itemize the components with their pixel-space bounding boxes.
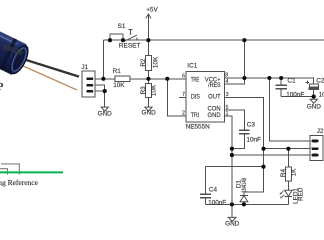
svg-text:R4: R4 bbox=[280, 168, 287, 177]
svg-text:3: 3 bbox=[226, 92, 229, 98]
svg-text:1N4148: 1N4148 bbox=[241, 178, 248, 193]
annotation gray bracket inner bbox=[0, 169, 8, 175]
wire pin 5 CON to C3 bbox=[224, 110, 244, 129]
svg-text:1K: 1K bbox=[291, 168, 298, 177]
svg-text:5: 5 bbox=[226, 105, 229, 111]
svg-text:S1: S1 bbox=[118, 23, 126, 30]
annotation gray bracket outer bbox=[1, 164, 19, 175]
svg-text:/RES: /RES bbox=[208, 82, 221, 89]
wire C4 top link bbox=[206, 166, 264, 168]
wire C1/C2 bottom rail bbox=[281, 96, 314, 98]
wire pin 1 GND down bbox=[224, 116, 232, 204]
switch S1 bracket bbox=[110, 34, 123, 40]
wire VCC row: pin 8 to C2 bbox=[224, 78, 313, 84]
photo: capacitor lead dark bbox=[15, 57, 79, 77]
photo: electrolytic capacitor body bbox=[0, 18, 32, 78]
ground bottom middle bbox=[228, 217, 236, 221]
svg-text:C2: C2 bbox=[316, 78, 324, 85]
svg-text:R2: R2 bbox=[140, 58, 147, 67]
wire S1 left drop to J1/R1 node bbox=[102, 40, 104, 79]
resistor R2 bbox=[145, 40, 151, 79]
wire J1 pin2 bbox=[95, 85, 105, 91]
switch S1 arm bbox=[124, 35, 137, 41]
ground below J1 bbox=[101, 107, 108, 111]
annotation green underline bbox=[0, 171, 63, 173]
svg-text:TRI: TRI bbox=[191, 112, 199, 119]
svg-text:10K: 10K bbox=[152, 56, 159, 68]
connector J1 bbox=[82, 71, 95, 97]
wire row A: node to IC pin 6 bbox=[103, 78, 185, 80]
svg-text:C3: C3 bbox=[247, 121, 256, 128]
svg-text:C4: C4 bbox=[209, 186, 218, 193]
wire J2 pin 3 row bbox=[232, 154, 310, 156]
wire VCC vertical from bus bbox=[243, 40, 245, 78]
power +5V symbol bbox=[146, 14, 151, 40]
wire J1 pin1 to node bbox=[95, 78, 103, 80]
wire bottom rail bbox=[206, 203, 289, 205]
switch S1 actuator bbox=[129, 29, 133, 35]
ground below R3 bbox=[145, 107, 152, 111]
svg-text:TRE: TRE bbox=[191, 76, 199, 83]
svg-text:GND: GND bbox=[98, 110, 113, 117]
wire J2 pin 1 bbox=[269, 78, 310, 141]
svg-text:P: P bbox=[0, 81, 3, 92]
capacitor C3 bbox=[239, 130, 249, 134]
svg-text:RED: RED bbox=[297, 187, 304, 201]
IC pin names bbox=[191, 76, 221, 119]
wire J1 pin3 to ground bbox=[95, 91, 105, 107]
diode D1 1N4148 bbox=[240, 195, 248, 204]
svg-text:J2: J2 bbox=[317, 128, 324, 135]
svg-text:8: 8 bbox=[225, 73, 228, 79]
svg-text:2: 2 bbox=[182, 111, 185, 117]
op-amp/timer IC1 NE555N body bbox=[186, 72, 225, 122]
svg-text:10nF: 10nF bbox=[246, 137, 261, 144]
wire C2 to ground bbox=[313, 97, 315, 99]
svg-text:100nF: 100nF bbox=[286, 91, 304, 98]
svg-text:6: 6 bbox=[182, 73, 185, 79]
svg-text:100uF: 100uF bbox=[319, 91, 324, 98]
svg-text:10K: 10K bbox=[150, 84, 157, 96]
resistor R1 bbox=[115, 76, 130, 81]
resistor R4 bbox=[285, 149, 291, 190]
wire OUT pin 3 to D1 bbox=[224, 97, 263, 195]
svg-text:OUT: OUT bbox=[208, 94, 221, 101]
svg-text:C1: C1 bbox=[287, 78, 296, 85]
capacitor C4 bbox=[200, 167, 211, 205]
ground below C2 bbox=[310, 99, 317, 103]
svg-text:GND: GND bbox=[141, 109, 156, 116]
LED1 emission arrows bbox=[280, 191, 285, 199]
capacitor C1 bbox=[276, 78, 287, 97]
svg-text:RESET: RESET bbox=[119, 42, 141, 49]
resistor R3 bbox=[145, 79, 151, 107]
capacitor C2 (polarized) bbox=[306, 81, 320, 97]
wire TRI branch bbox=[167, 79, 186, 116]
pin 7 DIS stub bbox=[179, 96, 186, 98]
photo: capacitor lead tan bbox=[13, 62, 77, 91]
connector J2 bbox=[310, 135, 323, 160]
svg-text:R3: R3 bbox=[140, 86, 147, 95]
svg-text:DIS: DIS bbox=[191, 94, 200, 101]
svg-text:J1: J1 bbox=[81, 64, 88, 71]
svg-text:R1: R1 bbox=[113, 68, 122, 75]
svg-text:NE555N: NE555N bbox=[186, 124, 211, 131]
svg-text:4: 4 bbox=[226, 79, 229, 85]
wire top +5V bus bbox=[103, 39, 324, 41]
LED LED1 bbox=[285, 190, 293, 204]
svg-text:100nF: 100nF bbox=[208, 199, 226, 206]
svg-text:+5V: +5V bbox=[146, 7, 158, 14]
wire pin 4 /RES loop bbox=[224, 78, 244, 84]
svg-text:GND: GND bbox=[225, 221, 240, 228]
IC pin numbers bbox=[182, 73, 229, 118]
svg-text:10K: 10K bbox=[113, 82, 125, 89]
svg-text:7: 7 bbox=[182, 92, 185, 98]
svg-text:ng Reference: ng Reference bbox=[0, 178, 39, 187]
svg-text:GND: GND bbox=[208, 112, 221, 119]
wire C3 bottom to GND net bbox=[232, 135, 244, 149]
wire GND stem bottom bbox=[231, 204, 233, 217]
svg-text:IC1: IC1 bbox=[187, 62, 197, 69]
svg-text:GND: GND bbox=[307, 104, 322, 111]
svg-text:1: 1 bbox=[226, 111, 229, 117]
wire J2 pin 2 row bbox=[264, 148, 311, 150]
